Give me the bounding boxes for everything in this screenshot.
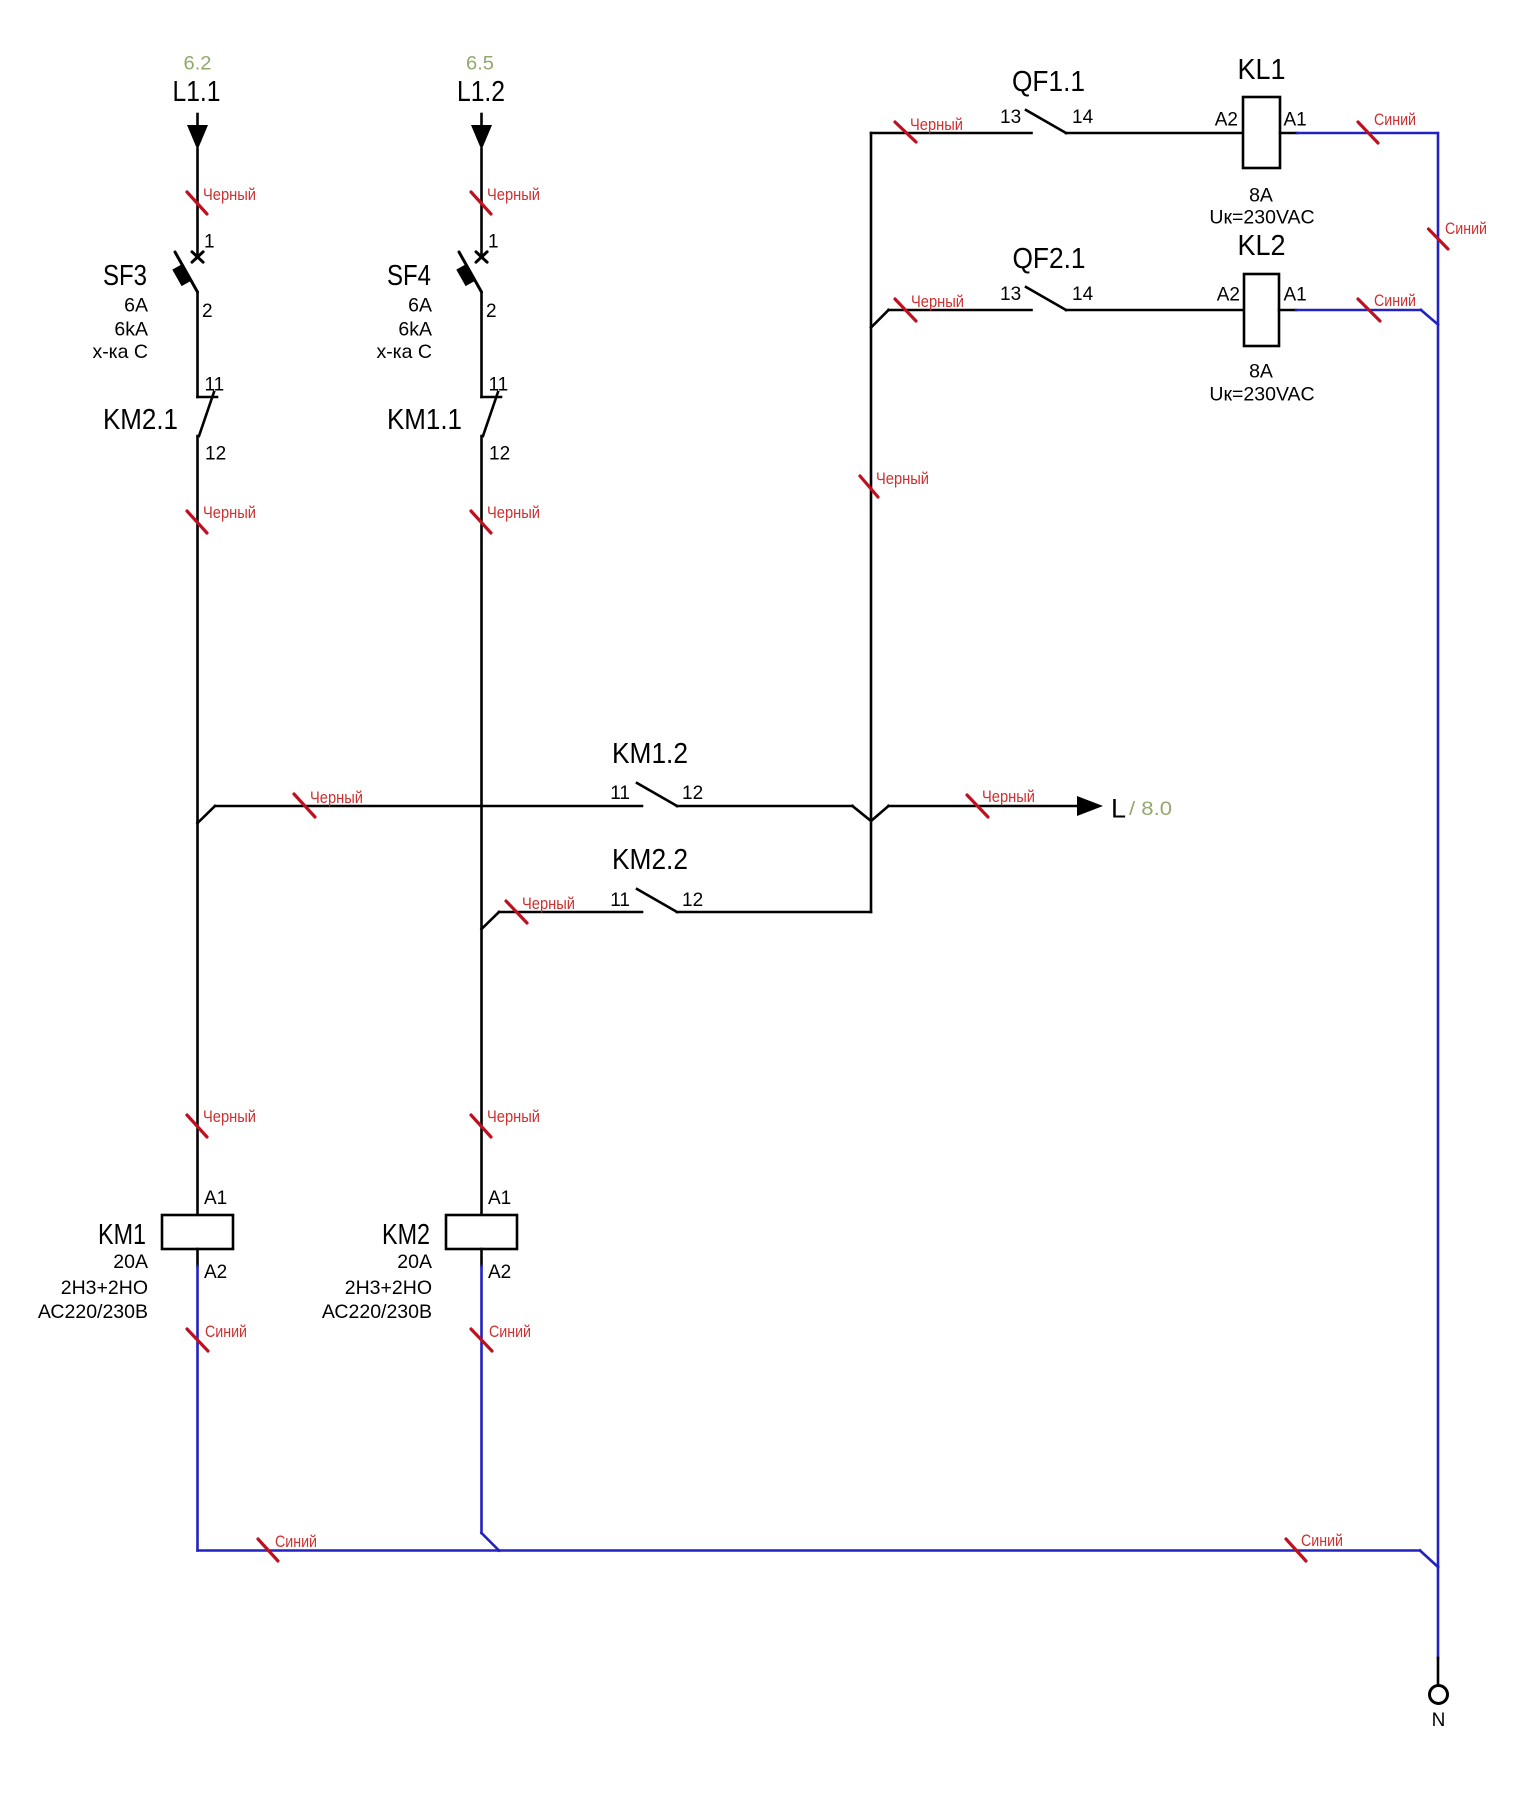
svg-text:KM1.1: KM1.1 — [387, 404, 462, 436]
svg-text:6A: 6A — [124, 295, 148, 317]
wire KM2.1 down to junction — [196, 436, 199, 823]
svg-text:12: 12 — [682, 890, 703, 911]
svg-text:A1: A1 — [1284, 110, 1307, 131]
breaker SF3 — [92, 232, 214, 364]
svg-text:11: 11 — [610, 890, 630, 911]
svg-text:8A: 8A — [1249, 185, 1273, 207]
wire feed vertical (QF column) — [870, 133, 873, 912]
node L outgoing arrow / 8.0 — [1077, 794, 1172, 824]
breaker SF4 — [376, 232, 498, 364]
wire blue bottom bus — [499, 1551, 1438, 1568]
svg-text:Черный: Черный — [910, 116, 963, 134]
svg-text:/ 8.0: / 8.0 — [1129, 798, 1172, 820]
wire color slash Черный (QF2.1 row) — [895, 293, 964, 321]
svg-text:АС220/230В: АС220/230В — [38, 1301, 148, 1323]
wire color slash Черный (KM2.2) — [506, 895, 575, 923]
svg-text:L1.1: L1.1 — [173, 76, 221, 108]
svg-text:14: 14 — [1072, 284, 1094, 305]
svg-text:KL1: KL1 — [1238, 54, 1286, 86]
svg-text:13: 13 — [1000, 107, 1021, 128]
wire KL1 A1 stub — [1280, 132, 1297, 135]
svg-text:Uк=230VAC: Uк=230VAC — [1209, 384, 1314, 406]
wire color slash Синий (N column) — [1429, 220, 1488, 249]
terminal N — [1430, 1658, 1448, 1731]
wire color slash Черный (L1.2 top) — [471, 186, 540, 214]
wire L1.1 down to SF3 — [196, 149, 199, 257]
NO contact KM2.2 — [610, 844, 703, 912]
svg-text:KM1.2: KM1.2 — [612, 738, 688, 770]
relay coil KL2 — [1209, 230, 1314, 406]
svg-text:х-ка C: х-ка C — [376, 341, 432, 363]
wire color slash Черный (feed vertical) — [860, 470, 929, 497]
wire color slash Черный (KM1.2 left) — [294, 789, 363, 817]
NC contact KM2.1 — [103, 375, 226, 465]
wire color slash Синий (KM1 out) — [187, 1323, 247, 1351]
terminal arrow L1.1 — [187, 114, 208, 150]
svg-text:QF2.1: QF2.1 — [1013, 243, 1086, 275]
svg-text:Черный: Черный — [310, 789, 363, 807]
NC contact KM1.1 — [387, 375, 510, 465]
wire color slash Черный (KM1.2 right) — [967, 788, 1035, 817]
wire QF1.1 to KL1 — [1066, 132, 1243, 135]
svg-text:13: 13 — [1000, 284, 1021, 305]
svg-text:2Н3+2НО: 2Н3+2НО — [61, 1277, 148, 1299]
wire color slash Черный (L1.1 top) — [187, 186, 256, 214]
svg-text:A2: A2 — [1217, 285, 1240, 306]
wire QF2.1 row left — [889, 309, 1032, 312]
svg-text:12: 12 — [682, 783, 703, 804]
svg-text:6A: 6A — [408, 295, 432, 317]
svg-text:KM2.1: KM2.1 — [103, 404, 178, 436]
wire blue KL2 out — [1296, 310, 1438, 325]
wire SF4 to KM1.1 — [480, 293, 483, 397]
wire KM1.1 down to KM2 coil — [480, 436, 483, 1214]
wire L1.1 column to KM1 coil — [196, 823, 199, 1214]
svg-text:QF1.1: QF1.1 — [1012, 66, 1085, 98]
svg-text:Синий: Синий — [1374, 111, 1416, 129]
svg-text:Черный: Черный — [487, 504, 540, 522]
wire KM1.2 branch from L1.1 column — [198, 806, 643, 823]
svg-text:KL2: KL2 — [1238, 230, 1286, 262]
svg-text:1: 1 — [204, 232, 215, 253]
wire KM2 A2 stub — [480, 1249, 483, 1266]
svg-text:Черный: Черный — [911, 293, 964, 311]
wire blue N column vertical — [1437, 133, 1440, 1567]
wire color slash Синий (KL1 out) — [1358, 111, 1416, 143]
wire SF3 to KM2.1 — [196, 293, 199, 397]
wire QF2.1 tap jog — [871, 310, 889, 328]
svg-text:х-ка C: х-ка C — [92, 341, 148, 363]
svg-text:Синий: Синий — [489, 1323, 531, 1341]
wire color slash Синий (bus left) — [258, 1533, 317, 1561]
svg-text:N: N — [1432, 1710, 1446, 1731]
svg-text:A2: A2 — [1215, 110, 1238, 131]
wire L1.2 down to SF4 — [480, 149, 483, 257]
svg-text:Черный: Черный — [487, 186, 540, 204]
svg-text:A2: A2 — [204, 1262, 227, 1283]
wire KM2.2 branch from L1.2 column — [482, 912, 643, 929]
wire KL2 A1 stub — [1279, 309, 1296, 312]
svg-text:2: 2 — [486, 301, 497, 322]
node L1.1 sheet ref 6.2 — [173, 53, 221, 109]
wire KM2.2 to feed column — [677, 911, 871, 914]
svg-text:KM2.2: KM2.2 — [612, 844, 688, 876]
svg-text:1: 1 — [488, 232, 499, 253]
relay coil KL1 — [1209, 54, 1314, 229]
svg-text:Синий: Синий — [205, 1323, 247, 1341]
wire blue KM2 down — [482, 1266, 500, 1551]
svg-text:Синий: Синий — [1301, 1532, 1343, 1550]
svg-text:A1: A1 — [488, 1188, 511, 1209]
svg-text:A1: A1 — [1284, 285, 1307, 306]
wire color slash Черный (KM2 coil feed) — [471, 1108, 540, 1137]
svg-text:20A: 20A — [397, 1251, 432, 1273]
svg-text:Черный: Черный — [203, 1108, 256, 1126]
wire KM1 A2 stub — [196, 1249, 199, 1266]
svg-text:Синий: Синий — [1374, 292, 1416, 310]
svg-text:6.5: 6.5 — [466, 53, 494, 75]
svg-text:20A: 20A — [113, 1251, 148, 1273]
wire color slash Синий (bus right) — [1286, 1532, 1343, 1561]
svg-text:12: 12 — [489, 444, 510, 465]
contactor coil KM1 — [38, 1188, 233, 1323]
wire color slash Синий (KL2 out) — [1358, 292, 1416, 321]
svg-text:8A: 8A — [1249, 361, 1273, 383]
NO contact QF1.1 — [1000, 66, 1094, 133]
wire color slash Синий (KM2 out) — [471, 1323, 531, 1351]
svg-text:6kA: 6kA — [398, 319, 432, 341]
svg-text:Черный: Черный — [203, 504, 256, 522]
svg-text:A2: A2 — [488, 1262, 511, 1283]
svg-text:L: L — [1111, 794, 1126, 824]
svg-text:2: 2 — [202, 301, 213, 322]
wire QF2.1 to KL2 — [1066, 309, 1244, 312]
svg-text:Черный: Черный — [203, 186, 256, 204]
svg-text:Черный: Черный — [487, 1108, 540, 1126]
svg-text:11: 11 — [610, 783, 630, 804]
svg-text:L1.2: L1.2 — [457, 76, 505, 108]
terminal arrow L1.2 — [471, 114, 492, 150]
wire KM1.2 to junction — [677, 806, 1077, 821]
svg-text:Uк=230VAC: Uк=230VAC — [1209, 207, 1314, 229]
wire color slash Черный (QF1.1 row) — [895, 116, 963, 142]
svg-text:KM1: KM1 — [98, 1219, 146, 1251]
wire QF1.1 row left — [871, 132, 1032, 135]
wire color slash Черный (L1.2 mid) — [471, 504, 540, 533]
svg-text:АС220/230В: АС220/230В — [322, 1301, 432, 1323]
svg-text:6.2: 6.2 — [184, 53, 212, 75]
svg-text:Синий: Синий — [275, 1533, 317, 1551]
svg-text:Черный: Черный — [982, 788, 1035, 806]
svg-text:KM2: KM2 — [382, 1219, 430, 1251]
node L1.2 sheet ref 6.5 — [457, 53, 505, 109]
svg-text:14: 14 — [1072, 107, 1094, 128]
wire blue KL1 to N column — [1297, 132, 1437, 135]
wire color slash Черный (KM1 coil feed) — [187, 1108, 256, 1137]
svg-text:SF3: SF3 — [103, 260, 147, 292]
NO contact KM1.2 — [610, 738, 703, 806]
svg-text:A1: A1 — [204, 1188, 227, 1209]
svg-text:SF4: SF4 — [387, 260, 431, 292]
svg-text:2Н3+2НО: 2Н3+2НО — [345, 1277, 432, 1299]
svg-text:Синий: Синий — [1445, 220, 1487, 238]
svg-text:6kA: 6kA — [114, 319, 148, 341]
wire blue above N — [1437, 1567, 1440, 1658]
svg-text:Черный: Черный — [522, 895, 575, 913]
contactor coil KM2 — [322, 1188, 517, 1323]
wire blue KM1 to bus — [198, 1266, 500, 1551]
svg-text:12: 12 — [205, 444, 226, 465]
NO contact QF2.1 — [1000, 243, 1094, 310]
svg-text:Черный: Черный — [876, 470, 929, 488]
wire color slash Черный (L1.1 mid) — [187, 504, 256, 533]
